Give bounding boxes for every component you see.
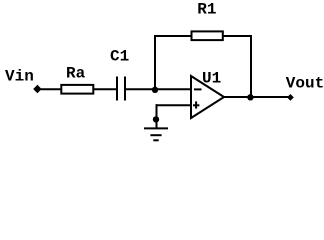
svg-text:R1: R1 xyxy=(197,1,216,19)
svg-text:Ra: Ra xyxy=(66,65,86,83)
svg-text:U1: U1 xyxy=(202,70,221,88)
svg-text:C1: C1 xyxy=(110,48,129,66)
svg-text:Vin: Vin xyxy=(5,68,34,86)
svg-text:Vout: Vout xyxy=(286,74,324,92)
